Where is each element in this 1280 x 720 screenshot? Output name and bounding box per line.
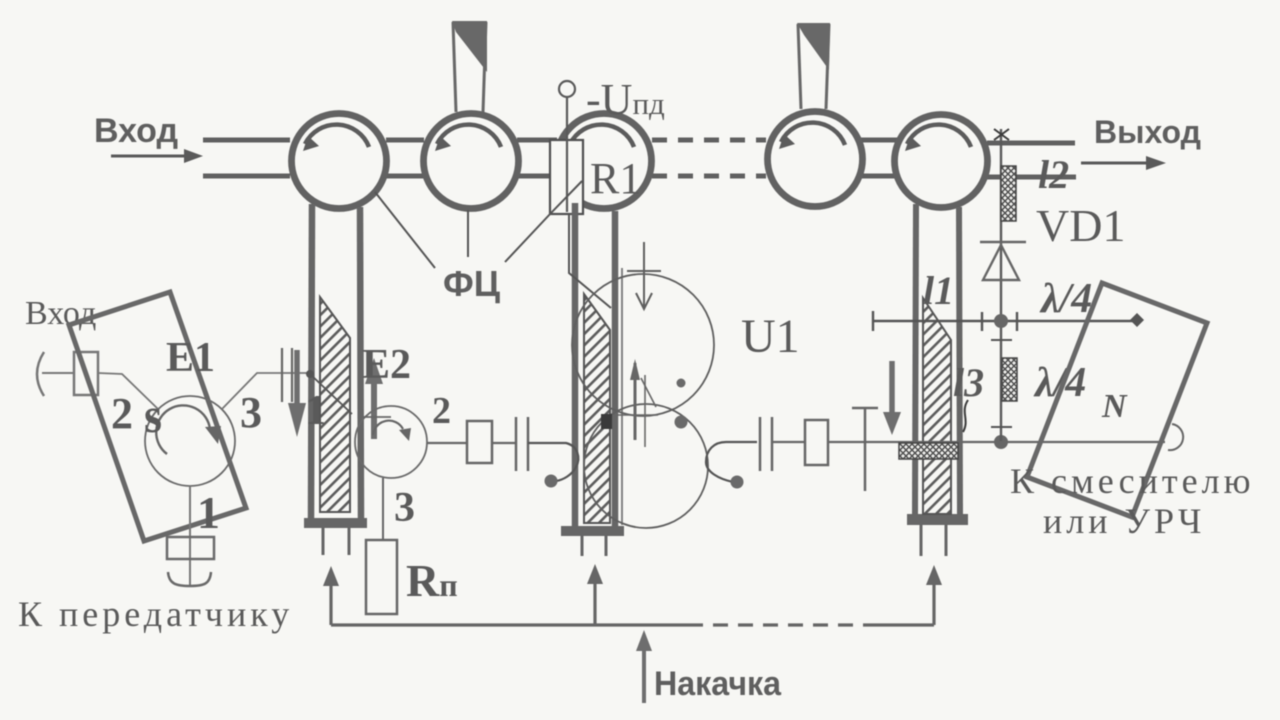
capacitor E2-U1: [516, 417, 528, 471]
down arrow into U1: [627, 242, 661, 309]
svg-text:VD1: VD1: [1036, 200, 1125, 251]
pump arrow E2: [365, 358, 383, 439]
circulator 5: [895, 115, 988, 208]
wire λ/4 horizontal line: [873, 311, 1137, 331]
node dot small in U1: [677, 379, 686, 388]
pump source arrow Накачка: [636, 630, 652, 703]
stub ticks on bias line: [991, 340, 1012, 427]
wire connector c4-c5: [861, 140, 897, 176]
label l3 tail curl: [963, 400, 968, 432]
wire E2 port3: [382, 478, 384, 540]
node diamond end of λ/4 line: [1130, 313, 1144, 327]
svg-text:К смесителю: К смесителю: [1010, 461, 1254, 501]
waveguide resonator 3 walls: [915, 204, 960, 517]
svg-text:2: 2: [432, 390, 451, 432]
resonator U1 upper circle: [572, 274, 714, 416]
varactor square dot on waveguide 2: [601, 414, 612, 429]
wire lower output line: [828, 441, 1165, 443]
circulator E2 port1 tick: [360, 416, 391, 418]
circulator 2: [424, 114, 519, 209]
waveguide 2 thin inner wall: [621, 268, 623, 525]
wire junction to E2 port1: [306, 370, 352, 414]
wire E1 port2 lead: [42, 372, 74, 374]
waveguide 1 varactor hatched element: [320, 297, 350, 512]
stub T on output line: [852, 408, 878, 491]
wire vertical bias line right column: [1000, 129, 1002, 441]
load box E1 port1: [167, 537, 214, 559]
wire coupling loop left into U1: [528, 443, 578, 481]
wire E2 port2: [427, 442, 467, 444]
pump down arrow at waveguide 1: [288, 350, 306, 437]
wire leader circulator1 to ФЦ: [375, 192, 435, 268]
node dot big in U1: [675, 416, 688, 429]
waveguide resonator 1 walls: [311, 204, 361, 521]
wire input top rail: [203, 140, 290, 176]
terminal -Uпд: [559, 75, 665, 124]
node x-tick top of bias line: [994, 129, 1009, 140]
waveguide 2 varactor hatched element: [584, 294, 610, 523]
wire: [492, 442, 515, 444]
svg-text:s: s: [144, 387, 162, 443]
diode VD1: [980, 242, 1026, 280]
wire output arrow: [1081, 156, 1166, 170]
circulator 3: [557, 114, 652, 209]
svg-text:1: 1: [305, 388, 326, 434]
svg-text:или УРЧ: или УРЧ: [1043, 501, 1205, 541]
svg-text:λ/4: λ/4: [1039, 276, 1092, 322]
wire connector c1-c2: [386, 140, 424, 176]
wire connector c2-c3: [517, 140, 557, 176]
circulator E1 rotation arrow: [156, 405, 221, 454]
wire bias lead R1 to waveguide 2: [569, 214, 611, 308]
up arrow loop inside U1: [617, 359, 658, 447]
wire leader R1 to ФЦ: [505, 181, 582, 262]
filter box E2 port2: [467, 421, 492, 463]
svg-text:E1: E1: [166, 335, 215, 381]
svg-text:1: 1: [197, 487, 220, 538]
waveguide 3 varactor hatched element: [923, 298, 951, 514]
svg-text:N: N: [1101, 388, 1128, 425]
waveguide 2 bottom legs: [582, 536, 606, 556]
waveguide 3 bottom legs: [921, 525, 946, 556]
filter box on E1 input: [74, 352, 98, 395]
svg-text:2: 2: [111, 389, 133, 438]
waveguide resonator 2 walls: [575, 203, 615, 529]
wire pump distribution line: [331, 580, 934, 625]
circulator 4: [768, 112, 863, 207]
stub l2 crosshatch box: [1001, 166, 1016, 221]
node dot right coupling: [731, 476, 744, 489]
svg-text:3: 3: [394, 485, 415, 531]
svg-text:U1: U1: [741, 310, 800, 363]
pump down arrow at waveguide 3: [883, 361, 901, 435]
mixer tilted rectangle: [1027, 283, 1207, 517]
node dot left coupling: [545, 475, 558, 488]
wire output rail: [987, 143, 1076, 177]
wire E1 port1 lead: [189, 486, 191, 585]
wire: [772, 441, 805, 443]
wire coupling loop right of U1: [706, 442, 757, 482]
svg-text:3: 3: [240, 388, 262, 437]
svg-text:Вход: Вход: [25, 295, 96, 332]
wire leader circulator2 to ФЦ: [467, 210, 469, 257]
wire input terminal bracket: [37, 352, 44, 396]
load bracket E1 port1: [168, 572, 211, 586]
coupling crosshatch band on waveguide 3: [899, 443, 958, 459]
circulator E2: [355, 406, 427, 478]
waveguide 2 bottom bar: [561, 526, 624, 536]
svg-text:Накачка: Накачка: [654, 665, 782, 703]
svg-text:E2: E2: [362, 342, 411, 388]
svg-text:Вход: Вход: [94, 112, 178, 150]
wire hook at end of lower output line: [1168, 424, 1183, 450]
wire dashed connector c3-c4: [652, 140, 766, 176]
circulator E1: [145, 396, 235, 486]
capacitor E1-waveguide1: [282, 348, 292, 402]
circulator 1: [292, 114, 387, 209]
waveguide 1 bottom bar: [304, 518, 367, 528]
svg-text:l2: l2: [1038, 152, 1069, 197]
stub l3 crosshatch box: [1002, 358, 1017, 401]
node dot on lower output line: [994, 435, 1008, 449]
node dot on λ/4 line: [994, 314, 1008, 328]
svg-text:ФЦ: ФЦ: [443, 263, 501, 304]
wire input arrow: [111, 149, 203, 163]
filter box on output line: [805, 420, 828, 465]
svg-text:l3: l3: [953, 360, 984, 405]
circulator E2 rotation arrow: [373, 421, 411, 441]
svg-text:l1: l1: [923, 268, 954, 313]
svg-text:К передатчику: К передатчику: [18, 594, 293, 634]
resistor R1: [550, 97, 641, 214]
capacitor U1-output line: [760, 417, 772, 471]
wire E1 port2 lead b: [98, 373, 158, 409]
waveguide 1 bottom legs: [323, 528, 349, 555]
matched load flag above circulator 4: [797, 23, 830, 109]
pump riser arrowheads: [323, 566, 339, 586]
switch housing tilted rectangle E1: [69, 292, 246, 541]
waveguide 3 bottom bar: [907, 514, 968, 525]
matched load flag above circulator 2: [452, 21, 487, 112]
svg-text:Выход: Выход: [1094, 114, 1201, 150]
resistor Rп: [366, 540, 458, 614]
svg-text:R1: R1: [590, 154, 641, 203]
wire E1 port3 lead: [222, 373, 311, 409]
resonator U1 lower circle: [584, 404, 708, 528]
